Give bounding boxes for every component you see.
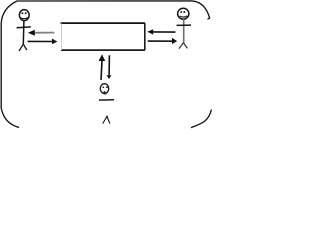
left actor left leg <box>19 44 23 51</box>
left actor eyes <box>21 12 23 14</box>
system boundary (hand-drawn rounded rectangle, open on right/bottom) <box>1 1 209 127</box>
right actor eyes <box>180 11 182 13</box>
right actor body (gray) <box>183 19 185 42</box>
vertical arrow up <box>101 61 102 80</box>
bottom actor leg apex dot <box>106 116 108 118</box>
bottom actor arms line <box>99 99 114 101</box>
left actor right leg <box>23 44 26 50</box>
central box left edge <box>61 24 63 51</box>
bottom actor legs (lambda) <box>103 116 110 123</box>
central box bottom edge <box>61 49 145 51</box>
bottom actor eyes <box>103 86 105 88</box>
left actor arms <box>17 26 31 29</box>
left-side arrow toward actor (gray shaft, black left head) <box>35 32 55 34</box>
right actor left leg <box>179 43 183 49</box>
central box top edge <box>61 22 146 24</box>
right actor head <box>178 8 189 19</box>
right actor right leg <box>183 43 187 49</box>
right actor arms <box>177 24 192 26</box>
left actor head <box>19 10 29 21</box>
bottom small actor head <box>100 84 108 94</box>
left-side arrow toward box (right head) <box>28 40 53 42</box>
central box right edge <box>144 23 146 50</box>
boundary bottom-right arc <box>192 110 212 128</box>
left actor smile <box>21 18 28 19</box>
bottom actor mouth <box>103 91 105 93</box>
vertical arrow down <box>108 55 110 75</box>
right-side arrow toward box (left head) <box>153 31 176 33</box>
right actor smile <box>180 16 188 17</box>
left actor body <box>22 21 25 45</box>
right-side arrow toward actor (right head) <box>148 40 173 42</box>
